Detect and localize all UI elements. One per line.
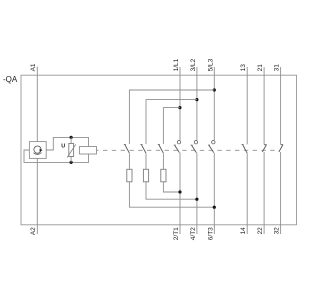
wire aux 22 lower xyxy=(263,152,265,234)
node L2 tap xyxy=(195,98,198,101)
svg-text:5/L3: 5/L3 xyxy=(207,58,214,71)
svg-text:13: 13 xyxy=(240,64,247,72)
wire varistor stubs xyxy=(70,137,72,162)
svg-text:32: 32 xyxy=(274,227,281,235)
node T3 join xyxy=(213,206,216,209)
wire aux 31 upper xyxy=(280,67,282,144)
svg-text:U: U xyxy=(61,143,65,149)
electronic control unit U1 box xyxy=(29,142,46,159)
svg-text:-QA: -QA xyxy=(3,75,18,84)
node L3 tap xyxy=(213,88,216,91)
wire A1 xyxy=(36,67,38,142)
wire L2 bypass loop xyxy=(146,100,197,144)
bypass contact L3 xyxy=(124,143,126,145)
svg-text:31: 31 xyxy=(274,64,281,72)
svg-text:2/T1: 2/T1 xyxy=(173,227,180,240)
wire pole L2 upper xyxy=(196,67,198,140)
sensor R2 xyxy=(143,169,148,182)
svg-text:22: 22 xyxy=(257,227,264,235)
node L1 tap xyxy=(178,106,181,109)
node T1 join xyxy=(178,190,181,193)
mechanical linkage (dashed) xyxy=(103,149,278,151)
bypass contact L2 xyxy=(140,143,142,145)
wire coil bottom return to box left xyxy=(24,150,89,162)
wire sensor return to T2 xyxy=(146,182,197,199)
wire to sensor xyxy=(162,154,164,170)
wire to sensor xyxy=(128,154,130,170)
wire L1 bypass loop xyxy=(163,108,180,144)
enclosure border xyxy=(21,75,297,225)
wire A2 xyxy=(36,158,38,234)
svg-text:21: 21 xyxy=(257,64,264,72)
sensor R3 xyxy=(127,169,132,182)
wire aux 14 lower xyxy=(246,153,248,234)
wire aux 21 upper xyxy=(263,67,265,144)
coil K1 xyxy=(80,147,97,155)
wire box right to coil top xyxy=(46,137,88,150)
wire aux 13 upper xyxy=(246,67,248,144)
wire pole T2 lower xyxy=(196,153,198,234)
svg-text:1/L1: 1/L1 xyxy=(173,58,180,71)
main contact L2 (with circle) xyxy=(194,141,197,144)
svg-text:14: 14 xyxy=(240,227,247,235)
node varistor bottom xyxy=(70,161,73,164)
wire pole L1 upper xyxy=(179,67,181,140)
wire pole L3 upper xyxy=(213,67,215,140)
aux NC contact 31-32 xyxy=(281,144,284,146)
wire pole T1 lower xyxy=(179,153,181,234)
aux NO contact 13-14 xyxy=(242,143,244,145)
wire sensor return to T1 xyxy=(163,182,180,192)
sensor R1 xyxy=(161,169,166,182)
wire coil actuator stub xyxy=(97,149,99,151)
main contact L1 (with circle) xyxy=(177,141,180,144)
aux NC contact 21-22 xyxy=(264,144,267,146)
wire L3 bypass loop xyxy=(129,90,214,144)
node varistor top xyxy=(70,136,73,139)
bypass contact L1 xyxy=(158,143,160,145)
main contact L3 (with circle) xyxy=(212,141,215,144)
svg-text:3/L2: 3/L2 xyxy=(190,58,197,71)
wire to sensor xyxy=(145,154,147,170)
svg-text:A1: A1 xyxy=(30,63,37,71)
wire pole T3 lower xyxy=(213,153,215,234)
wire aux 32 lower xyxy=(280,152,282,234)
electronic control symbol (circular arrow) xyxy=(34,146,41,153)
svg-text:4/T2: 4/T2 xyxy=(190,227,197,240)
node T2 join xyxy=(195,198,198,201)
varistor RV1 xyxy=(69,144,74,157)
wire sensor return to T3 xyxy=(129,182,214,207)
svg-text:A2: A2 xyxy=(30,227,37,235)
svg-text:6/T3: 6/T3 xyxy=(207,227,214,240)
